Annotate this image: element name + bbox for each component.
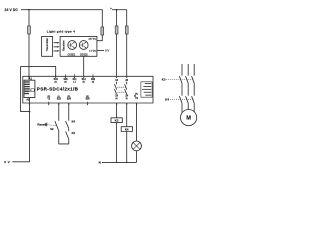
svg-text:K4: K4 <box>165 98 169 102</box>
svg-text:Transmitter: Transmitter <box>45 38 49 52</box>
svg-text:24 V DC: 24 V DC <box>5 8 19 12</box>
svg-text:OSSD1: OSSD1 <box>68 54 77 56</box>
svg-text:K3: K3 <box>115 119 119 123</box>
svg-text:0 V: 0 V <box>105 49 109 53</box>
svg-text:N: N <box>99 161 101 165</box>
svg-text:S24: S24 <box>67 97 72 100</box>
svg-text:(4): (4) <box>116 98 118 100</box>
svg-text:L+: L+ <box>110 8 112 10</box>
svg-text:(4): (4) <box>54 82 57 84</box>
svg-text:23: 23 <box>125 79 128 82</box>
svg-text:(R): (R) <box>47 96 50 98</box>
svg-text:(4): (4) <box>64 81 67 83</box>
svg-text:S35: S35 <box>85 98 90 100</box>
svg-text:0 V: 0 V <box>4 160 10 164</box>
svg-text:Y2: Y2 <box>135 98 139 100</box>
svg-text:13: 13 <box>115 79 118 82</box>
svg-text:S2: S2 <box>50 127 54 131</box>
svg-text:(R): (R) <box>135 93 138 95</box>
svg-text:Receiver: Receiver <box>61 40 65 51</box>
svg-text:Light grid type 4: Light grid type 4 <box>47 30 75 34</box>
svg-text:PSR-SDC4/2x1/B: PSR-SDC4/2x1/B <box>37 86 79 91</box>
svg-text:K4: K4 <box>125 127 129 131</box>
svg-text:0 V DC: 0 V DC <box>89 50 96 52</box>
svg-text:OSSD2: OSSD2 <box>80 54 89 56</box>
svg-text:24: 24 <box>125 95 128 98</box>
svg-text:1-2: 1-2 <box>73 81 77 83</box>
svg-text:Reset: Reset <box>37 123 45 127</box>
svg-text:(4): (4) <box>126 98 128 100</box>
svg-text:(4): (4) <box>82 81 85 83</box>
svg-text:S23: S23 <box>57 98 62 100</box>
svg-text:M: M <box>186 116 191 122</box>
svg-text:Y1: Y1 <box>47 99 51 101</box>
svg-text:K3: K3 <box>162 78 166 82</box>
svg-text:24V DC: 24V DC <box>89 39 97 41</box>
svg-text:K4: K4 <box>72 120 76 124</box>
svg-text:K3: K3 <box>72 131 76 135</box>
svg-text:(4): (4) <box>92 81 95 83</box>
svg-text:14: 14 <box>115 95 118 98</box>
